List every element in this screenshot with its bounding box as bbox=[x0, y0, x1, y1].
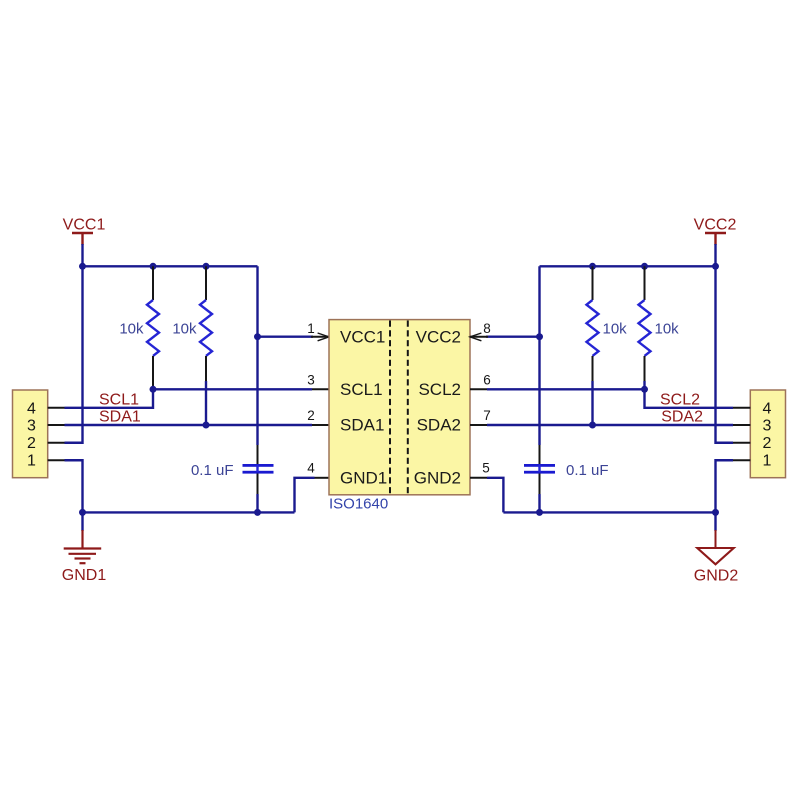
wire U1 GND1 to ground rail bbox=[295, 478, 315, 513]
svg-text:10k: 10k bbox=[655, 321, 680, 338]
pin 1 arrow bbox=[318, 333, 329, 341]
ground symbol GND1 bbox=[62, 512, 107, 584]
svg-text:1: 1 bbox=[307, 321, 315, 336]
svg-text:1: 1 bbox=[763, 453, 772, 470]
junction R3/SDA2 bbox=[589, 422, 596, 429]
svg-text:10k: 10k bbox=[603, 321, 628, 338]
pin stub U1 pin 8 bbox=[470, 336, 488, 338]
supply symbol VCC1 bbox=[63, 217, 106, 246]
junction VCC1 stem/rail bbox=[79, 263, 86, 270]
connector J1 bbox=[13, 390, 48, 478]
resistor R1 10k bbox=[119, 266, 159, 389]
wire J2 pin 2 to VCC2 bbox=[716, 266, 734, 442]
pin stub U1 pin 1 bbox=[311, 336, 329, 338]
svg-text:SDA2: SDA2 bbox=[417, 416, 461, 435]
wire J1 pin 1 to GND1 bbox=[65, 460, 83, 512]
pin stub U1 pin 4 bbox=[315, 477, 330, 479]
wire VCC2 stem to rail bbox=[714, 244, 716, 266]
pin stub U1 pin 2 bbox=[312, 424, 329, 426]
wire R2 to SDA1 bbox=[205, 381, 207, 425]
svg-text:5: 5 bbox=[482, 461, 490, 476]
svg-text:2: 2 bbox=[763, 435, 772, 452]
wire VCC1 stem to rail bbox=[81, 244, 83, 266]
svg-text:10k: 10k bbox=[172, 321, 197, 338]
wire R4 to SCL2 bbox=[643, 381, 645, 389]
resistor R3 10k bbox=[587, 266, 628, 381]
svg-text:2: 2 bbox=[27, 435, 36, 452]
svg-text:GND1: GND1 bbox=[62, 567, 107, 584]
svg-text:1: 1 bbox=[27, 453, 36, 470]
svg-text:GND2: GND2 bbox=[414, 469, 461, 488]
svg-text:GND2: GND2 bbox=[694, 568, 739, 585]
pin stub J1 pin 3 bbox=[48, 424, 65, 426]
pin stub U1 pin 7 bbox=[470, 424, 487, 426]
svg-text:SDA1: SDA1 bbox=[99, 408, 141, 425]
svg-text:3: 3 bbox=[27, 418, 36, 435]
supply symbol VCC2 bbox=[694, 217, 737, 246]
svg-text:4: 4 bbox=[27, 400, 36, 417]
svg-text:4: 4 bbox=[307, 461, 315, 476]
svg-text:SCL2: SCL2 bbox=[418, 380, 461, 399]
junction VCC1 branch bbox=[254, 333, 261, 340]
pin 8 arrow bbox=[470, 333, 481, 341]
junction rail/R2 bbox=[203, 263, 210, 270]
junction rail/R3 bbox=[589, 263, 596, 270]
pin stub J2 pin 2 bbox=[733, 442, 750, 444]
pin stub J2 pin 4 bbox=[733, 407, 750, 409]
pin stub U1 pin 3 bbox=[312, 388, 329, 390]
wire C1 bottom to ground rail bbox=[256, 494, 258, 512]
svg-text:VCC2: VCC2 bbox=[694, 217, 737, 234]
junction R1/SCL1 bbox=[150, 386, 157, 393]
junction VCC2 stem/rail bbox=[712, 263, 719, 270]
wire ground rail right bbox=[503, 511, 715, 513]
pin stub J1 pin 2 bbox=[48, 442, 65, 444]
pin stub J1 pin 4 bbox=[48, 407, 65, 409]
svg-text:VCC2: VCC2 bbox=[416, 328, 461, 347]
wire U1 GND2 to ground rail bbox=[487, 478, 503, 513]
wire SCL1 riser to J1 pin 4 bbox=[65, 389, 154, 408]
svg-text:2: 2 bbox=[307, 408, 315, 423]
junction C1/ground bbox=[254, 509, 261, 516]
ground symbol GND2 bbox=[694, 512, 739, 584]
pin stub U1 pin 5 bbox=[470, 477, 487, 479]
wire SCL2 riser to J2 pin 4 bbox=[645, 389, 734, 408]
svg-text:ISO1640: ISO1640 bbox=[329, 496, 388, 513]
junction GND2/J2 bbox=[712, 509, 719, 516]
wire J1 pin 2 to VCC1 bbox=[65, 266, 83, 442]
IC U1 ISO1640 bbox=[329, 320, 470, 495]
wire VCC2 rail drop to C2 bbox=[538, 266, 540, 445]
capacitor C1 0.1uF bbox=[191, 445, 274, 494]
svg-text:7: 7 bbox=[483, 408, 491, 423]
resistor R4 10k bbox=[639, 266, 680, 381]
junction C2/ground bbox=[536, 509, 543, 516]
wire SDA1 to U1 pin 2 bbox=[65, 424, 313, 426]
wire VCC1 to U1 pin 1 bbox=[258, 336, 314, 338]
svg-text:10k: 10k bbox=[119, 321, 144, 338]
wire ground rail left bbox=[83, 511, 295, 513]
wire VCC1 rail drop to C1 bbox=[256, 266, 258, 445]
wire C2 bottom to ground rail bbox=[538, 494, 540, 512]
pin stub J2 pin 3 bbox=[733, 424, 750, 426]
wire SDA2 from U1 pin 7 bbox=[487, 424, 733, 426]
svg-text:0.1 uF: 0.1 uF bbox=[191, 462, 234, 479]
wire VCC1 top rail bbox=[83, 265, 258, 267]
junction R4/SCL2 bbox=[641, 386, 648, 393]
junction R2/SDA1 bbox=[203, 422, 210, 429]
wire R3 to SDA2 bbox=[591, 381, 593, 425]
wire SCL1 to U1 pin 3 bbox=[153, 388, 312, 390]
svg-text:SCL1: SCL1 bbox=[340, 380, 383, 399]
junction VCC2 branch bbox=[536, 333, 543, 340]
svg-text:SCL1: SCL1 bbox=[99, 391, 139, 408]
pin stub J2 pin 1 bbox=[733, 459, 750, 461]
svg-text:0.1 uF: 0.1 uF bbox=[566, 462, 609, 479]
svg-text:4: 4 bbox=[763, 400, 772, 417]
junction GND1/J1 bbox=[79, 509, 86, 516]
svg-text:SCL2: SCL2 bbox=[660, 391, 700, 408]
svg-text:VCC1: VCC1 bbox=[63, 217, 106, 234]
capacitor C2 0.1uF bbox=[524, 445, 609, 494]
junction rail/R1 bbox=[150, 263, 157, 270]
svg-text:3: 3 bbox=[763, 418, 772, 435]
svg-text:VCC1: VCC1 bbox=[340, 328, 385, 347]
wire J2 pin 1 to GND2 bbox=[716, 460, 734, 512]
wire SCL2 from U1 pin 6 bbox=[487, 388, 645, 390]
svg-text:GND1: GND1 bbox=[340, 469, 387, 488]
pin stub J1 pin 1 bbox=[48, 459, 65, 461]
svg-text:6: 6 bbox=[483, 373, 491, 388]
svg-text:8: 8 bbox=[483, 321, 491, 336]
junction rail/R4 bbox=[641, 263, 648, 270]
svg-text:SDA2: SDA2 bbox=[661, 408, 703, 425]
resistor R2 10k bbox=[172, 266, 212, 381]
pin stub U1 pin 6 bbox=[470, 388, 487, 390]
wire VCC2 top rail bbox=[540, 265, 716, 267]
connector J2 bbox=[750, 390, 785, 478]
svg-text:SDA1: SDA1 bbox=[340, 416, 384, 435]
svg-text:3: 3 bbox=[307, 373, 315, 388]
wire VCC2 to U1 pin 8 bbox=[486, 336, 540, 338]
